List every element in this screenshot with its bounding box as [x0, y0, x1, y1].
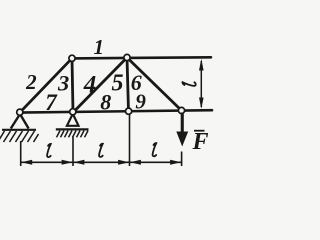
middle support at D [56, 114, 89, 138]
svg-text:1: 1 [94, 35, 105, 59]
left pinned support at C [0, 114, 39, 142]
member 1 top chord A-B plus right extension line [71, 57, 211, 58]
witness under C [20, 141, 22, 166]
bottom dimension label l (second span) [99, 144, 103, 157]
bottom dimension label l (first span) [47, 144, 51, 157]
svg-text:F: F [192, 129, 209, 155]
right vertical dimension line [199, 59, 204, 109]
witness under D [72, 137, 74, 167]
bottom dimension line with arrowheads [21, 160, 182, 165]
svg-text:5: 5 [112, 71, 124, 97]
svg-text:9: 9 [135, 89, 146, 113]
force F arrow [176, 113, 188, 147]
member 2 diagonal C-A [20, 58, 72, 112]
witness under E [129, 114, 131, 166]
bottom chord C-D-E-F plus right extension line [19, 110, 212, 112]
svg-text:8: 8 [100, 89, 111, 114]
node A [69, 55, 75, 61]
node D [70, 109, 76, 115]
svg-text:3: 3 [57, 70, 69, 95]
member 5 vertical B-E [127, 58, 129, 112]
bottom dimension label l (third span) [153, 143, 157, 156]
bottom dimension witness lines [21, 114, 182, 166]
member 4 diagonal D-B [73, 58, 127, 113]
svg-text:7: 7 [45, 90, 58, 115]
node C [17, 109, 23, 115]
node F (loaded joint) [178, 107, 184, 113]
witness under F [181, 152, 183, 167]
member 3 vertical A-D [72, 58, 73, 112]
node B [124, 54, 130, 60]
member 6 diagonal B-F [127, 58, 182, 111]
right dimension label l (rotated) [182, 82, 195, 86]
node E [126, 108, 132, 114]
svg-text:4: 4 [83, 72, 97, 99]
svg-text:2: 2 [25, 70, 37, 94]
